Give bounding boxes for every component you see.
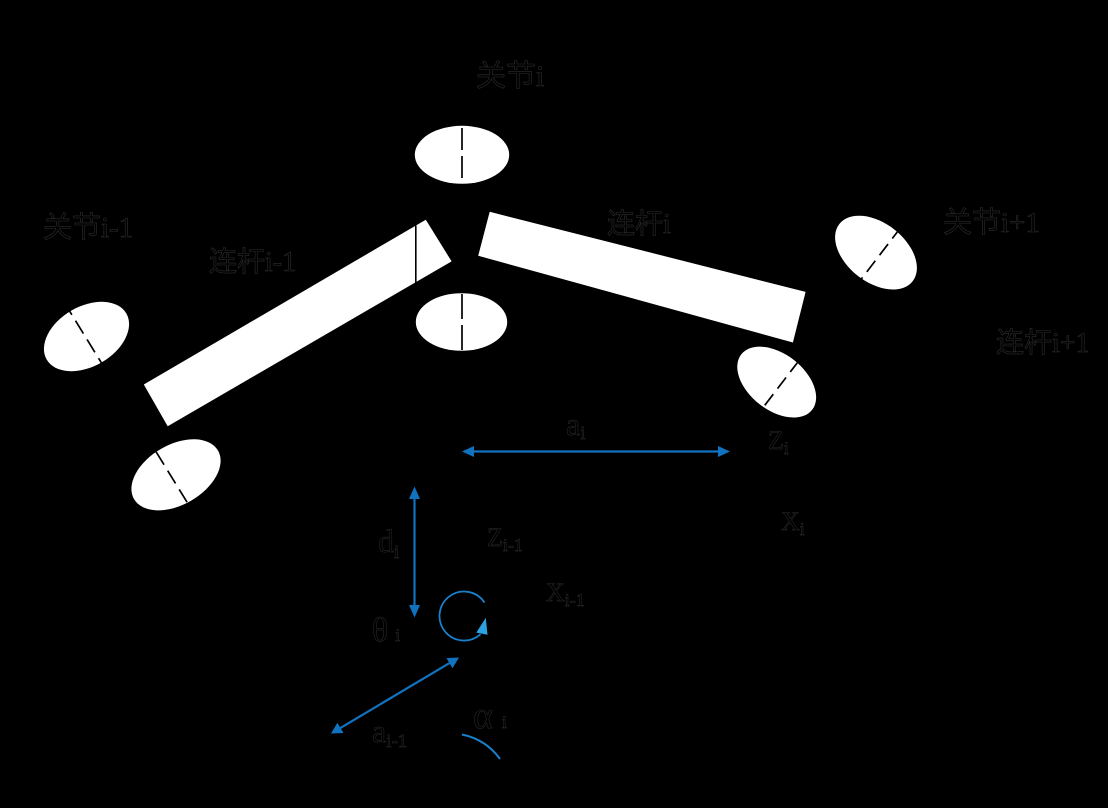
theta_i rotation arc (circle with arrowhead)	[440, 592, 485, 641]
wire cylinder silhouette line on link i-1	[415, 226, 417, 284]
joint i axis dashed (bottom cap)	[461, 294, 463, 351]
blue dimension arrow d_i (vertical double arrow)	[409, 487, 420, 618]
joint i axis dashed (top cap)	[461, 128, 463, 184]
theta arrowhead	[476, 618, 487, 635]
joint i top cap ellipse	[415, 126, 509, 184]
joint i bottom cap ellipse	[416, 293, 507, 351]
joint i+1 top cap ellipse	[821, 201, 931, 305]
alpha_i angle arc	[462, 735, 500, 760]
svg-text:关节i-1: 关节i-1	[43, 211, 133, 244]
svg-text:关节i: 关节i	[476, 60, 544, 93]
joint i-1 axis dashed line	[64, 302, 198, 520]
joint i-1 top cap ellipse	[32, 288, 142, 386]
svg-text:关节i+1: 关节i+1	[943, 206, 1040, 239]
link i (white slab from joint i down-right)	[478, 212, 805, 343]
link i-1 (white slab from joint i down-left)	[144, 220, 452, 427]
blue dimension arrow a_i (horizontal double arrow)	[462, 446, 730, 457]
joint i+1 bottom cap ellipse	[724, 332, 829, 432]
joint i+1 axis dashed line	[752, 225, 903, 423]
blue dimension arrow a_i-1 (diagonal double arrow)	[331, 658, 459, 734]
svg-text:连杆i-1: 连杆i-1	[209, 246, 296, 278]
joint i-1 bottom cap ellipse	[119, 425, 233, 525]
svg-text:连杆i: 连杆i	[607, 208, 671, 240]
svg-text:连杆i+1: 连杆i+1	[996, 327, 1090, 359]
